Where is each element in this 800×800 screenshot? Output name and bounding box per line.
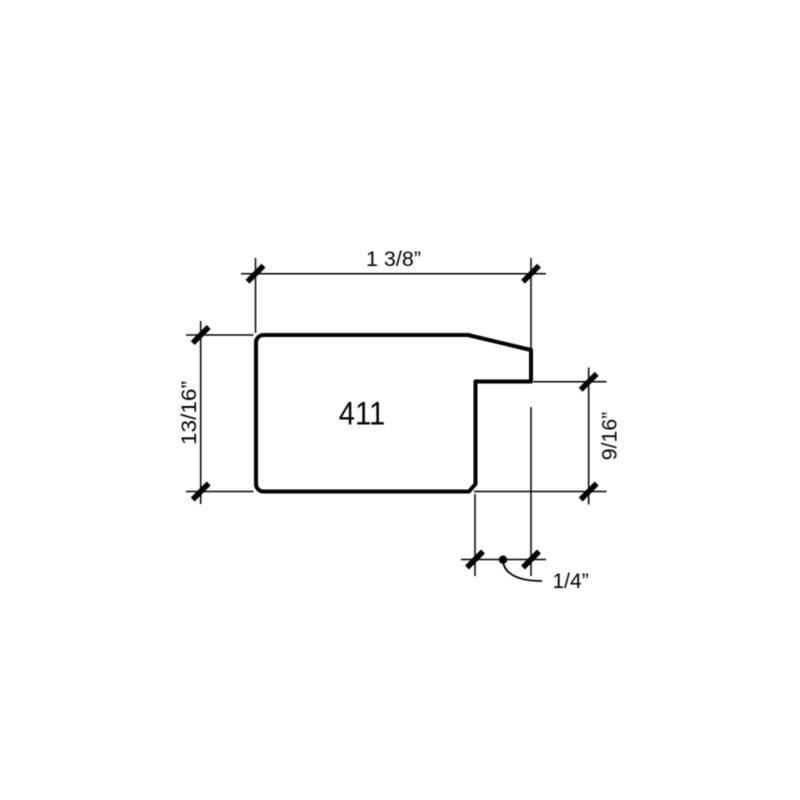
svg-text:411: 411 — [339, 396, 386, 432]
svg-text:13/16”: 13/16” — [177, 381, 201, 445]
svg-text:9/16”: 9/16” — [598, 412, 622, 461]
svg-text:1 3/8”: 1 3/8” — [366, 247, 421, 271]
svg-text:1/4”: 1/4” — [553, 570, 589, 593]
